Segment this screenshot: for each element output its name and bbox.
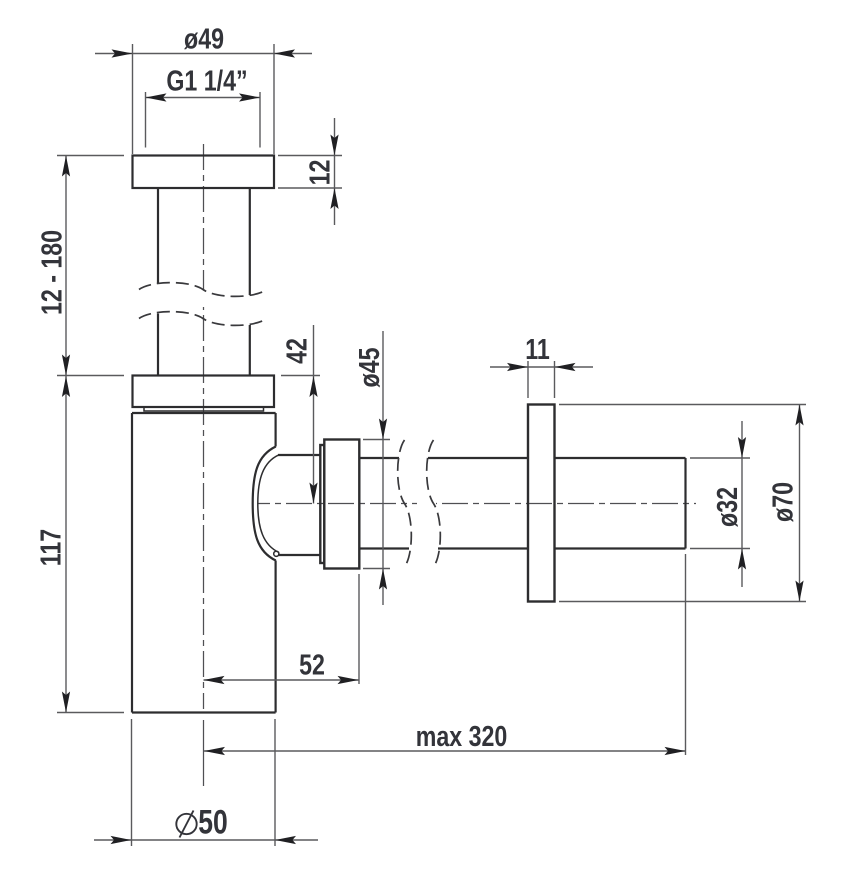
svg-text:ø70: ø70: [766, 482, 799, 522]
svg-text:ø49: ø49: [184, 22, 224, 55]
outlet pipe break wave right: [427, 440, 441, 567]
svg-text:G1 1/4”: G1 1/4”: [166, 64, 247, 97]
washer before nut: [320, 445, 324, 563]
horn mouth top edge: [278, 454, 320, 456]
top flange of tailpipe: [133, 156, 275, 189]
wall flange rosette: [528, 405, 555, 602]
svg-text:ø45: ø45: [352, 348, 385, 388]
svg-text:50: 50: [198, 803, 228, 841]
outlet horn inner curve: [258, 455, 279, 553]
trap body cup: [132, 413, 276, 713]
horn mouth bottom edge: [278, 554, 320, 556]
dimension 42 (flange to outlet axis): [280, 325, 320, 504]
outlet pipe end: [684, 458, 686, 549]
lower flange (body cap): [133, 376, 275, 408]
outlet pipe break wave left: [398, 440, 412, 567]
dimension ø45 (nut diameter): [352, 331, 390, 605]
dimension 11 (rosette depth): [490, 332, 593, 398]
svg-text:ø32: ø32: [710, 487, 743, 527]
tailpipe right wall: [249, 188, 251, 376]
svg-text:12: 12: [303, 160, 336, 186]
dimension 12 (flange height): [278, 118, 342, 225]
dimension 52 (axis to nut end): [204, 574, 360, 684]
svg-text:42: 42: [280, 338, 313, 364]
horizontal centerline of outlet pipe: [258, 503, 696, 505]
dimension ø49: [95, 22, 312, 154]
dimension ø70 (rosette diameter): [559, 405, 806, 602]
upper break wave: [139, 283, 267, 297]
svg-text:12 - 180: 12 - 180: [35, 230, 68, 315]
vertical centerline of tailpipe and body: [203, 144, 205, 786]
coupling nut ø45: [324, 440, 359, 569]
outlet horn outer curve: [253, 447, 276, 561]
dimension G1 1/4 inch: [146, 64, 261, 148]
dimension max 320 (axis to pipe end): [204, 554, 686, 755]
lower break wave: [139, 312, 267, 326]
outlet pipe top edge: [359, 457, 685, 459]
tailpipe left wall: [157, 188, 159, 376]
svg-text:max 320: max 320: [416, 719, 508, 752]
dimension 12 - 180 (adjustable length): [35, 156, 124, 376]
svg-text:117: 117: [34, 529, 67, 566]
dimension diameter 50 (body): [94, 719, 318, 846]
svg-text:11: 11: [525, 332, 550, 365]
dimension 117 (body height): [34, 376, 124, 713]
dimension ø32 (pipe diameter): [690, 421, 750, 587]
svg-text:52: 52: [299, 648, 325, 681]
horn fillet detail: [274, 551, 279, 556]
outlet pipe bottom edge: [359, 547, 685, 549]
gasket ring under flange: [144, 407, 264, 411]
